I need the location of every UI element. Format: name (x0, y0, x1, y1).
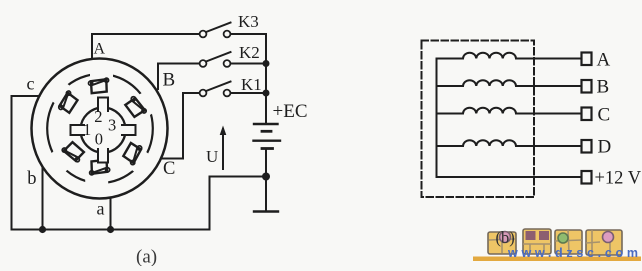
dashed enclosure box (422, 41, 535, 198)
svg-text:(b): (b) (496, 228, 515, 247)
rotor circle (81, 108, 126, 153)
common +12V wire (437, 176, 582, 178)
pole 8 o'clock (49, 136, 86, 173)
junction dot K1-bus (263, 90, 270, 97)
svg-text:K1: K1 (241, 75, 262, 94)
wire a (110, 198, 112, 230)
watermark char blob 2 (523, 229, 551, 254)
svg-text:K3: K3 (238, 12, 259, 31)
svg-text:C: C (598, 105, 611, 126)
svg-text:1: 1 (83, 120, 91, 139)
arrow U (222, 129, 224, 169)
svg-text:3: 3 (108, 115, 116, 134)
svg-text:B: B (597, 77, 610, 98)
junction dot battery-bottom (262, 173, 270, 181)
terminal C (582, 108, 592, 121)
winding phase B (437, 80, 582, 86)
junction dot a (107, 226, 114, 233)
watermark char blob 3 (555, 230, 582, 254)
svg-text:K2: K2 (239, 43, 260, 62)
svg-text:D: D (598, 137, 612, 158)
wire K3 to bus (231, 34, 267, 123)
svg-text:b: b (27, 169, 36, 189)
watermark char blob 1 (488, 232, 516, 255)
wire K2 to bus (231, 63, 267, 65)
rotor tooth right (122, 125, 136, 135)
winding phase A (437, 53, 582, 59)
junction dot b (39, 226, 46, 233)
terminal A (582, 53, 592, 66)
battery EC plates (254, 123, 278, 125)
pole 6 o'clock bottom (85, 160, 110, 188)
svg-text:+12 V: +12 V (595, 169, 642, 189)
watermark logo (473, 229, 641, 261)
svg-text:c: c (27, 74, 35, 94)
rotor tooth bottom (98, 149, 108, 163)
svg-text:(a): (a) (136, 247, 157, 267)
svg-text:www.dzsc.com: www.dzsc.com (507, 246, 638, 260)
wire C from stator to K1 (161, 93, 200, 159)
terminal +12V (582, 171, 592, 184)
svg-text:A: A (94, 41, 106, 58)
motor stator inner ring (47, 74, 153, 183)
svg-text:A: A (597, 50, 611, 71)
svg-text:U: U (206, 147, 218, 166)
svg-text:2: 2 (94, 107, 102, 126)
bottom bus wire (12, 177, 267, 230)
wire c left (12, 96, 40, 230)
junction dot K2-bus (263, 60, 270, 67)
watermark underline bar (473, 257, 641, 262)
terminal B (582, 80, 592, 93)
wire K1 to bus (231, 92, 267, 94)
switch K1 (200, 90, 207, 97)
rotor tooth top (98, 98, 108, 112)
wire B from stator to K2 (158, 64, 200, 90)
switch K3 (200, 31, 207, 38)
terminal D (582, 140, 592, 153)
svg-text:+EC: +EC (273, 101, 308, 122)
winding phase C (437, 108, 582, 114)
rotor numbers (83, 107, 116, 149)
motor stator outer circle (32, 59, 168, 199)
svg-text:a: a (97, 199, 105, 219)
svg-text:B: B (163, 70, 176, 91)
pole 2 o'clock (124, 88, 160, 123)
labels left diagram (27, 12, 308, 268)
svg-text:0: 0 (95, 129, 103, 148)
battery end bar (254, 210, 278, 212)
wire b (42, 167, 44, 230)
labels right diagram (595, 50, 642, 189)
rotor tooth left (71, 125, 85, 135)
pole 10 o'clock (46, 79, 83, 115)
switch K2 (200, 60, 207, 67)
left bus wire (436, 59, 438, 178)
pole 4 o'clock (118, 140, 155, 176)
wire A from stator top to K3 (92, 34, 200, 59)
watermark char blob 4 (586, 230, 622, 255)
svg-text:C: C (163, 159, 175, 179)
battery bottom wire (265, 149, 267, 212)
winding phase D (437, 140, 582, 146)
pole U-A top (12 o'clock) (89, 66, 114, 94)
